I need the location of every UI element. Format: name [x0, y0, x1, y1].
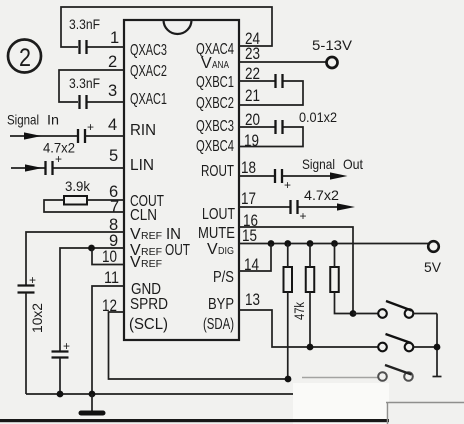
wire pin14 P/S up to 5V rail [239, 244, 271, 271]
capacitor C5 10u (pin8) [18, 273, 37, 394]
capacitor C9 4.7u (ROUT) [275, 169, 348, 192]
wire pin9 VREF OUT to C6 [60, 248, 124, 351]
wire pin20 QXBC3 loop to pin19 [239, 127, 303, 147]
junction pin16/R4/S1 [350, 310, 357, 317]
svg-text:P/S: P/S [213, 269, 234, 286]
svg-text:IN: IN [166, 226, 181, 243]
svg-text:+: + [284, 178, 291, 192]
svg-text:QXBC1: QXBC1 [196, 74, 234, 91]
resistor R1 3.9k (pin6-pin7) [44, 196, 124, 212]
wire pin23 VANA to supply terminal [239, 61, 328, 63]
capacitor C4 4.7u (LIN pin5) [46, 152, 125, 175]
svg-text:Signal: Signal [302, 156, 335, 172]
capacitor C10 4.7u (LOUT) [291, 200, 356, 223]
junction pin13/R3 [307, 344, 314, 351]
svg-text:21: 21 [245, 87, 260, 105]
label Signal In [7, 112, 59, 128]
wire pin18 ROUT output [239, 175, 274, 177]
svg-text:ANA: ANA [212, 60, 229, 71]
switch S1 (mute) [353, 301, 437, 318]
junction S2/column [434, 344, 441, 351]
wire pin22 QXBC1 loop to pin21 [239, 81, 303, 105]
junction R3/rail [307, 240, 314, 247]
pin numbers left side 1-12 [102, 29, 119, 315]
capacitor C3 4.7u (RIN pin4) [78, 120, 124, 143]
svg-text:QXAC3: QXAC3 [130, 42, 167, 59]
junction pin12/R2 [285, 376, 292, 383]
svg-text:LOUT: LOUT [202, 206, 235, 223]
svg-text:In: In [47, 112, 59, 128]
IC U1 left pin-name labels [129, 42, 190, 333]
junction C6/bus [57, 391, 64, 398]
svg-text:+: + [29, 273, 36, 287]
svg-text:1: 1 [110, 29, 119, 47]
svg-text:11: 11 [104, 269, 119, 287]
svg-text:V: V [130, 254, 141, 271]
wire signal-in RIN with arrow [10, 132, 77, 139]
svg-text:V: V [130, 226, 141, 243]
svg-text:3.9k: 3.9k [65, 178, 91, 194]
svg-text:ROUT: ROUT [201, 163, 234, 180]
wire pin8 VREF IN to C5 [26, 232, 124, 285]
wire pin24 top loop to pin1 capacitor [61, 7, 272, 47]
svg-text:(SCL): (SCL) [129, 316, 168, 333]
svg-text:QXAC2: QXAC2 [130, 63, 167, 80]
wire pin10 VREF up to pin9 node [92, 249, 124, 265]
IC U1 right pin-name labels [196, 41, 235, 333]
junction pin14/rail [268, 240, 275, 247]
node circled-2 marker [8, 40, 41, 73]
svg-text:23: 23 [245, 45, 260, 63]
svg-text:+: + [55, 152, 62, 166]
svg-text:2: 2 [19, 44, 31, 72]
terminal 5-13V supply [327, 57, 338, 68]
svg-text:2: 2 [108, 53, 117, 71]
switch S2 (bypass) [378, 334, 437, 351]
svg-text:SPRD: SPRD [130, 296, 168, 313]
svg-text:15: 15 [242, 227, 257, 245]
junction pin9/pin10 [88, 245, 95, 252]
svg-text:Signal: Signal [7, 112, 39, 128]
svg-text:18: 18 [241, 159, 256, 177]
svg-text:OUT: OUT [165, 242, 190, 259]
svg-text:REF: REF [141, 247, 162, 258]
svg-text:MUTE: MUTE [198, 225, 235, 242]
svg-text:4: 4 [108, 116, 117, 134]
svg-text:47k: 47k [292, 302, 307, 320]
svg-text:+: + [300, 209, 307, 223]
capacitor C2 3.3nF (pin2-pin3) [80, 95, 125, 109]
svg-text:5: 5 [109, 147, 118, 165]
svg-text:V: V [207, 241, 218, 258]
junction R4/rail [331, 240, 338, 247]
scan bottom border bar [0, 419, 389, 422]
svg-text:10x2: 10x2 [29, 303, 45, 333]
svg-text:REF: REF [141, 231, 162, 242]
wire pin15 VDIG 5V rail [239, 243, 429, 245]
svg-text:17: 17 [241, 190, 256, 208]
svg-text:+: + [87, 120, 94, 134]
svg-text:QXBC3: QXBC3 [196, 118, 234, 135]
svg-text:4.7x2: 4.7x2 [304, 187, 339, 203]
op-amp/IC U1 body TEA6320 [124, 20, 239, 340]
svg-text:BYP: BYP [208, 296, 234, 313]
svg-text:3.3nF: 3.3nF [69, 75, 100, 91]
wire pin16 MUTE down to switch S1 [239, 227, 353, 314]
svg-text:3: 3 [108, 82, 117, 100]
label Signal Out [302, 156, 363, 172]
wire pin13 BYP to switch S2 row [239, 310, 378, 347]
svg-text:0.01x2: 0.01x2 [299, 109, 337, 125]
wire pin12 SPRD under IC to R2 bottom [109, 312, 289, 379]
capacitor C7 0.01 (pin22-21) [276, 74, 283, 88]
svg-text:LIN: LIN [130, 157, 154, 174]
junction pin11/bus [89, 391, 96, 398]
svg-text:RIN: RIN [130, 122, 156, 139]
svg-text:5-13V: 5-13V [312, 37, 353, 53]
resistor R3 47k [306, 244, 315, 348]
svg-text:QXBC2: QXBC2 [196, 95, 234, 112]
svg-text:CLN: CLN [130, 207, 157, 224]
scan white patch bottom right [293, 383, 389, 424]
svg-text:10: 10 [102, 248, 117, 266]
wire signal-in LIN with arrow [11, 164, 45, 171]
ground symbol [79, 394, 106, 416]
capacitor C1 3.3nF (pin1) [80, 40, 125, 54]
resistor R4 47k [330, 244, 353, 314]
resistor R2 47k [284, 244, 293, 380]
ground bus wire [26, 393, 294, 395]
svg-text:(SDA): (SDA) [203, 316, 234, 333]
svg-text:QXBC4: QXBC4 [196, 138, 234, 155]
faded switch S4 leftover wires [386, 403, 464, 424]
svg-text:13: 13 [245, 291, 260, 309]
svg-text:3.3nF: 3.3nF [69, 16, 100, 32]
svg-text:Out: Out [343, 156, 363, 172]
pin numbers right side 13-24 [241, 30, 260, 309]
junction R2/rail [284, 240, 291, 247]
switch S3 (faded) [302, 365, 413, 381]
svg-text:QXAC1: QXAC1 [130, 91, 167, 108]
terminal 5V supply [428, 241, 439, 252]
capacitor C6 10u (pin9) [52, 339, 71, 394]
svg-text:REF: REF [141, 259, 162, 270]
svg-text:DIG: DIG [218, 246, 234, 257]
wire pin17 LOUT output [239, 206, 290, 208]
wire pin2 to pin3 capacitor [59, 70, 124, 102]
wire pin11 GND down to ground bus [92, 286, 124, 394]
svg-text:V: V [201, 55, 212, 72]
capacitor C8 0.01 (pin20-19) [276, 120, 283, 134]
svg-text:+: + [63, 339, 70, 353]
svg-text:5V: 5V [424, 259, 442, 275]
wire right column joining S1/S2 [433, 314, 442, 377]
